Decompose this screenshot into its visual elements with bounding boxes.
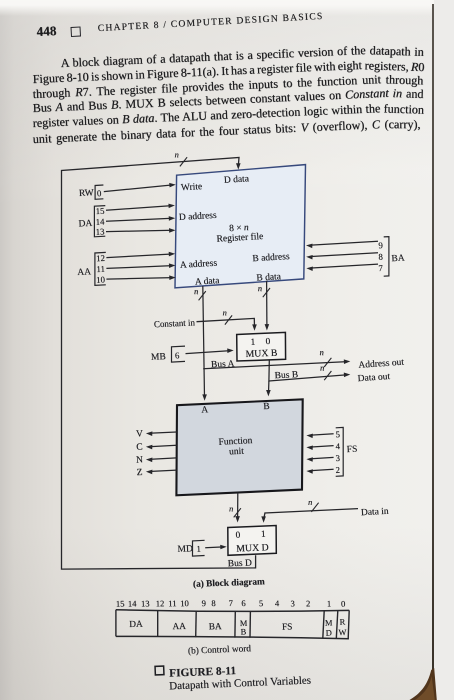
svg-text:MD: MD: [177, 544, 193, 555]
svg-text:6: 6: [175, 350, 180, 360]
svg-text:13: 13: [141, 598, 150, 608]
status output N: [136, 455, 177, 465]
svg-text:MB: MB: [151, 352, 166, 363]
svg-text:W: W: [338, 628, 346, 637]
svg-text:(a) Block diagram: (a) Block diagram: [193, 576, 265, 590]
wire MUX B output to Function unit input B: [266, 381, 271, 396]
svg-text:2: 2: [335, 465, 340, 475]
svg-text:(b) Control word: (b) Control word: [188, 643, 252, 656]
page header: [36, 23, 57, 40]
mux MUX B: [237, 332, 286, 361]
wire AA bit10: [106, 275, 175, 280]
table field AA: [172, 622, 186, 632]
wire Function unit output to MUX D input 0: [229, 493, 241, 523]
svg-text:14: 14: [95, 216, 105, 226]
svg-text:AA: AA: [77, 267, 91, 278]
svg-text:6: 6: [241, 598, 246, 608]
wire AA bit11: [106, 263, 175, 268]
svg-text:FS: FS: [346, 445, 357, 456]
svg-text:V: V: [136, 429, 144, 439]
control input FS bits 5,4,3,2: [335, 427, 357, 476]
control input DA bits 15,14,13: [78, 206, 105, 237]
wire Bus A to Address out: [203, 347, 404, 371]
svg-text:FS: FS: [282, 622, 293, 632]
svg-text:2: 2: [306, 598, 311, 608]
mux MUX D: [228, 526, 276, 556]
wire BA bit8: [306, 253, 378, 260]
svg-text:0: 0: [235, 531, 240, 541]
wire MB to MUX B select: [186, 348, 234, 353]
svg-text:3: 3: [335, 453, 341, 463]
wire DA bit13: [106, 228, 176, 233]
wire FS bit5: [306, 434, 333, 439]
control input BA bits 9,8,7: [378, 237, 405, 277]
svg-text:1: 1: [250, 337, 255, 347]
figure caption subtitle: [169, 674, 311, 692]
input Constant in: [154, 307, 257, 330]
control word table: [116, 610, 349, 639]
svg-text:12: 12: [96, 253, 105, 263]
node n-slash on top feedback wire: [175, 150, 188, 167]
svg-text:Bus D: Bus D: [228, 558, 252, 569]
wire FS bit3: [306, 457, 333, 462]
svg-text:BA: BA: [209, 622, 222, 632]
svg-text:Function: Function: [218, 436, 253, 448]
svg-text:A: A: [201, 405, 209, 415]
svg-text:C: C: [136, 442, 143, 452]
svg-text:1: 1: [196, 544, 201, 554]
wire BA bit7: [306, 264, 378, 271]
svg-text:4: 4: [335, 441, 341, 451]
svg-text:8: 8: [211, 598, 216, 608]
status output Z: [136, 468, 176, 478]
svg-text:M: M: [325, 618, 333, 627]
wire AA bit12: [106, 252, 175, 258]
table field MD: [325, 618, 333, 637]
svg-text:n: n: [320, 347, 324, 357]
svg-text:B data: B data: [256, 272, 282, 283]
svg-text:0: 0: [341, 599, 346, 609]
svg-text:BA: BA: [391, 254, 405, 265]
svg-text:D: D: [326, 629, 332, 638]
wire A data to Function unit input A: [194, 286, 207, 401]
svg-text:10: 10: [180, 598, 189, 608]
svg-text:5: 5: [259, 598, 264, 608]
svg-text:0: 0: [97, 188, 103, 198]
svg-text:7: 7: [378, 263, 384, 273]
table field DA: [129, 620, 143, 630]
svg-text:Z: Z: [136, 468, 143, 478]
table bit numbers 15..0: [116, 598, 346, 609]
wire B data to MUX B input 0: [258, 281, 270, 331]
status output C: [136, 442, 177, 452]
wire FS bit4: [306, 446, 333, 451]
control input RW bit 0: [79, 185, 104, 199]
svg-text:n: n: [320, 363, 324, 373]
label Bus D: [228, 558, 252, 569]
book spine edge line: [432, 4, 434, 670]
svg-text:DA: DA: [129, 620, 143, 630]
svg-text:Data in: Data in: [361, 507, 389, 518]
svg-text:D data: D data: [224, 174, 250, 186]
svg-text:Address out: Address out: [358, 358, 405, 371]
svg-text:11: 11: [168, 598, 177, 608]
svg-text:8: 8: [378, 251, 384, 261]
svg-text:MUX D: MUX D: [236, 542, 269, 554]
svg-text:3: 3: [290, 598, 295, 608]
svg-text:AA: AA: [172, 622, 186, 632]
table field MB: [240, 619, 248, 637]
svg-text:0: 0: [265, 337, 270, 347]
svg-text:1: 1: [327, 598, 332, 608]
caption (b) Control word: [188, 643, 252, 656]
svg-text:Bus A: Bus A: [211, 359, 235, 370]
svg-text:Write: Write: [181, 182, 203, 193]
svg-text:13: 13: [95, 226, 105, 236]
svg-text:5: 5: [335, 429, 341, 439]
svg-text:unit: unit: [229, 447, 245, 458]
svg-text:n: n: [229, 503, 233, 513]
function unit block: [176, 399, 302, 495]
table field BA: [209, 622, 222, 632]
wire FS bit2: [306, 469, 333, 474]
svg-text:B: B: [263, 402, 270, 412]
register file block 8xn: [175, 165, 306, 288]
svg-text:A data: A data: [195, 276, 221, 287]
wire BA bit9: [306, 241, 378, 248]
svg-text:Constant in: Constant in: [154, 317, 196, 329]
svg-text:MUX B: MUX B: [245, 348, 278, 360]
table field FS: [282, 622, 293, 632]
svg-text:n: n: [223, 307, 227, 317]
figure caption FIGURE 8-11: [169, 665, 237, 680]
svg-text:n: n: [258, 283, 262, 293]
svg-text:9: 9: [201, 598, 206, 608]
svg-text:N: N: [136, 455, 144, 465]
control input MB bit 6: [151, 346, 185, 363]
svg-text:10: 10: [96, 274, 106, 284]
svg-text:15: 15: [95, 206, 105, 216]
svg-text:RW: RW: [79, 188, 94, 199]
wire DA bit15: [106, 204, 175, 211]
svg-text:12: 12: [155, 598, 164, 608]
svg-text:n: n: [194, 286, 198, 296]
control input AA bits 12,11,10: [77, 252, 106, 285]
caption (a) Block diagram: [193, 576, 265, 590]
wire Bus B to Data out: [269, 363, 391, 385]
wire DA bit14: [106, 216, 175, 221]
status output V: [136, 429, 177, 439]
svg-text:4: 4: [275, 598, 280, 608]
wire RW to Write: [104, 183, 176, 192]
svg-text:14: 14: [128, 598, 138, 608]
table field RW: [338, 618, 346, 638]
svg-text:B: B: [240, 627, 246, 636]
svg-text:7: 7: [228, 598, 233, 608]
input Data in: [261, 497, 389, 523]
wire Bus D feedback loop: [62, 158, 256, 570]
svg-text:Bus B: Bus B: [274, 370, 298, 381]
figure caption square: [155, 666, 164, 675]
svg-text:15: 15: [116, 598, 125, 608]
paragraph: [60, 41, 423, 72]
wire MUX B output down to Bus B junction: [268, 360, 270, 381]
svg-text:1: 1: [261, 529, 266, 539]
svg-text:Data out: Data out: [357, 372, 390, 384]
svg-text:9: 9: [378, 240, 384, 250]
svg-text:n: n: [175, 150, 179, 160]
svg-text:n: n: [308, 497, 312, 507]
svg-text:DA: DA: [78, 219, 92, 230]
control input MD bit 1: [177, 540, 204, 556]
wire MD to MUX D select: [205, 545, 227, 550]
svg-text:R: R: [339, 618, 345, 627]
svg-text:11: 11: [96, 264, 105, 274]
